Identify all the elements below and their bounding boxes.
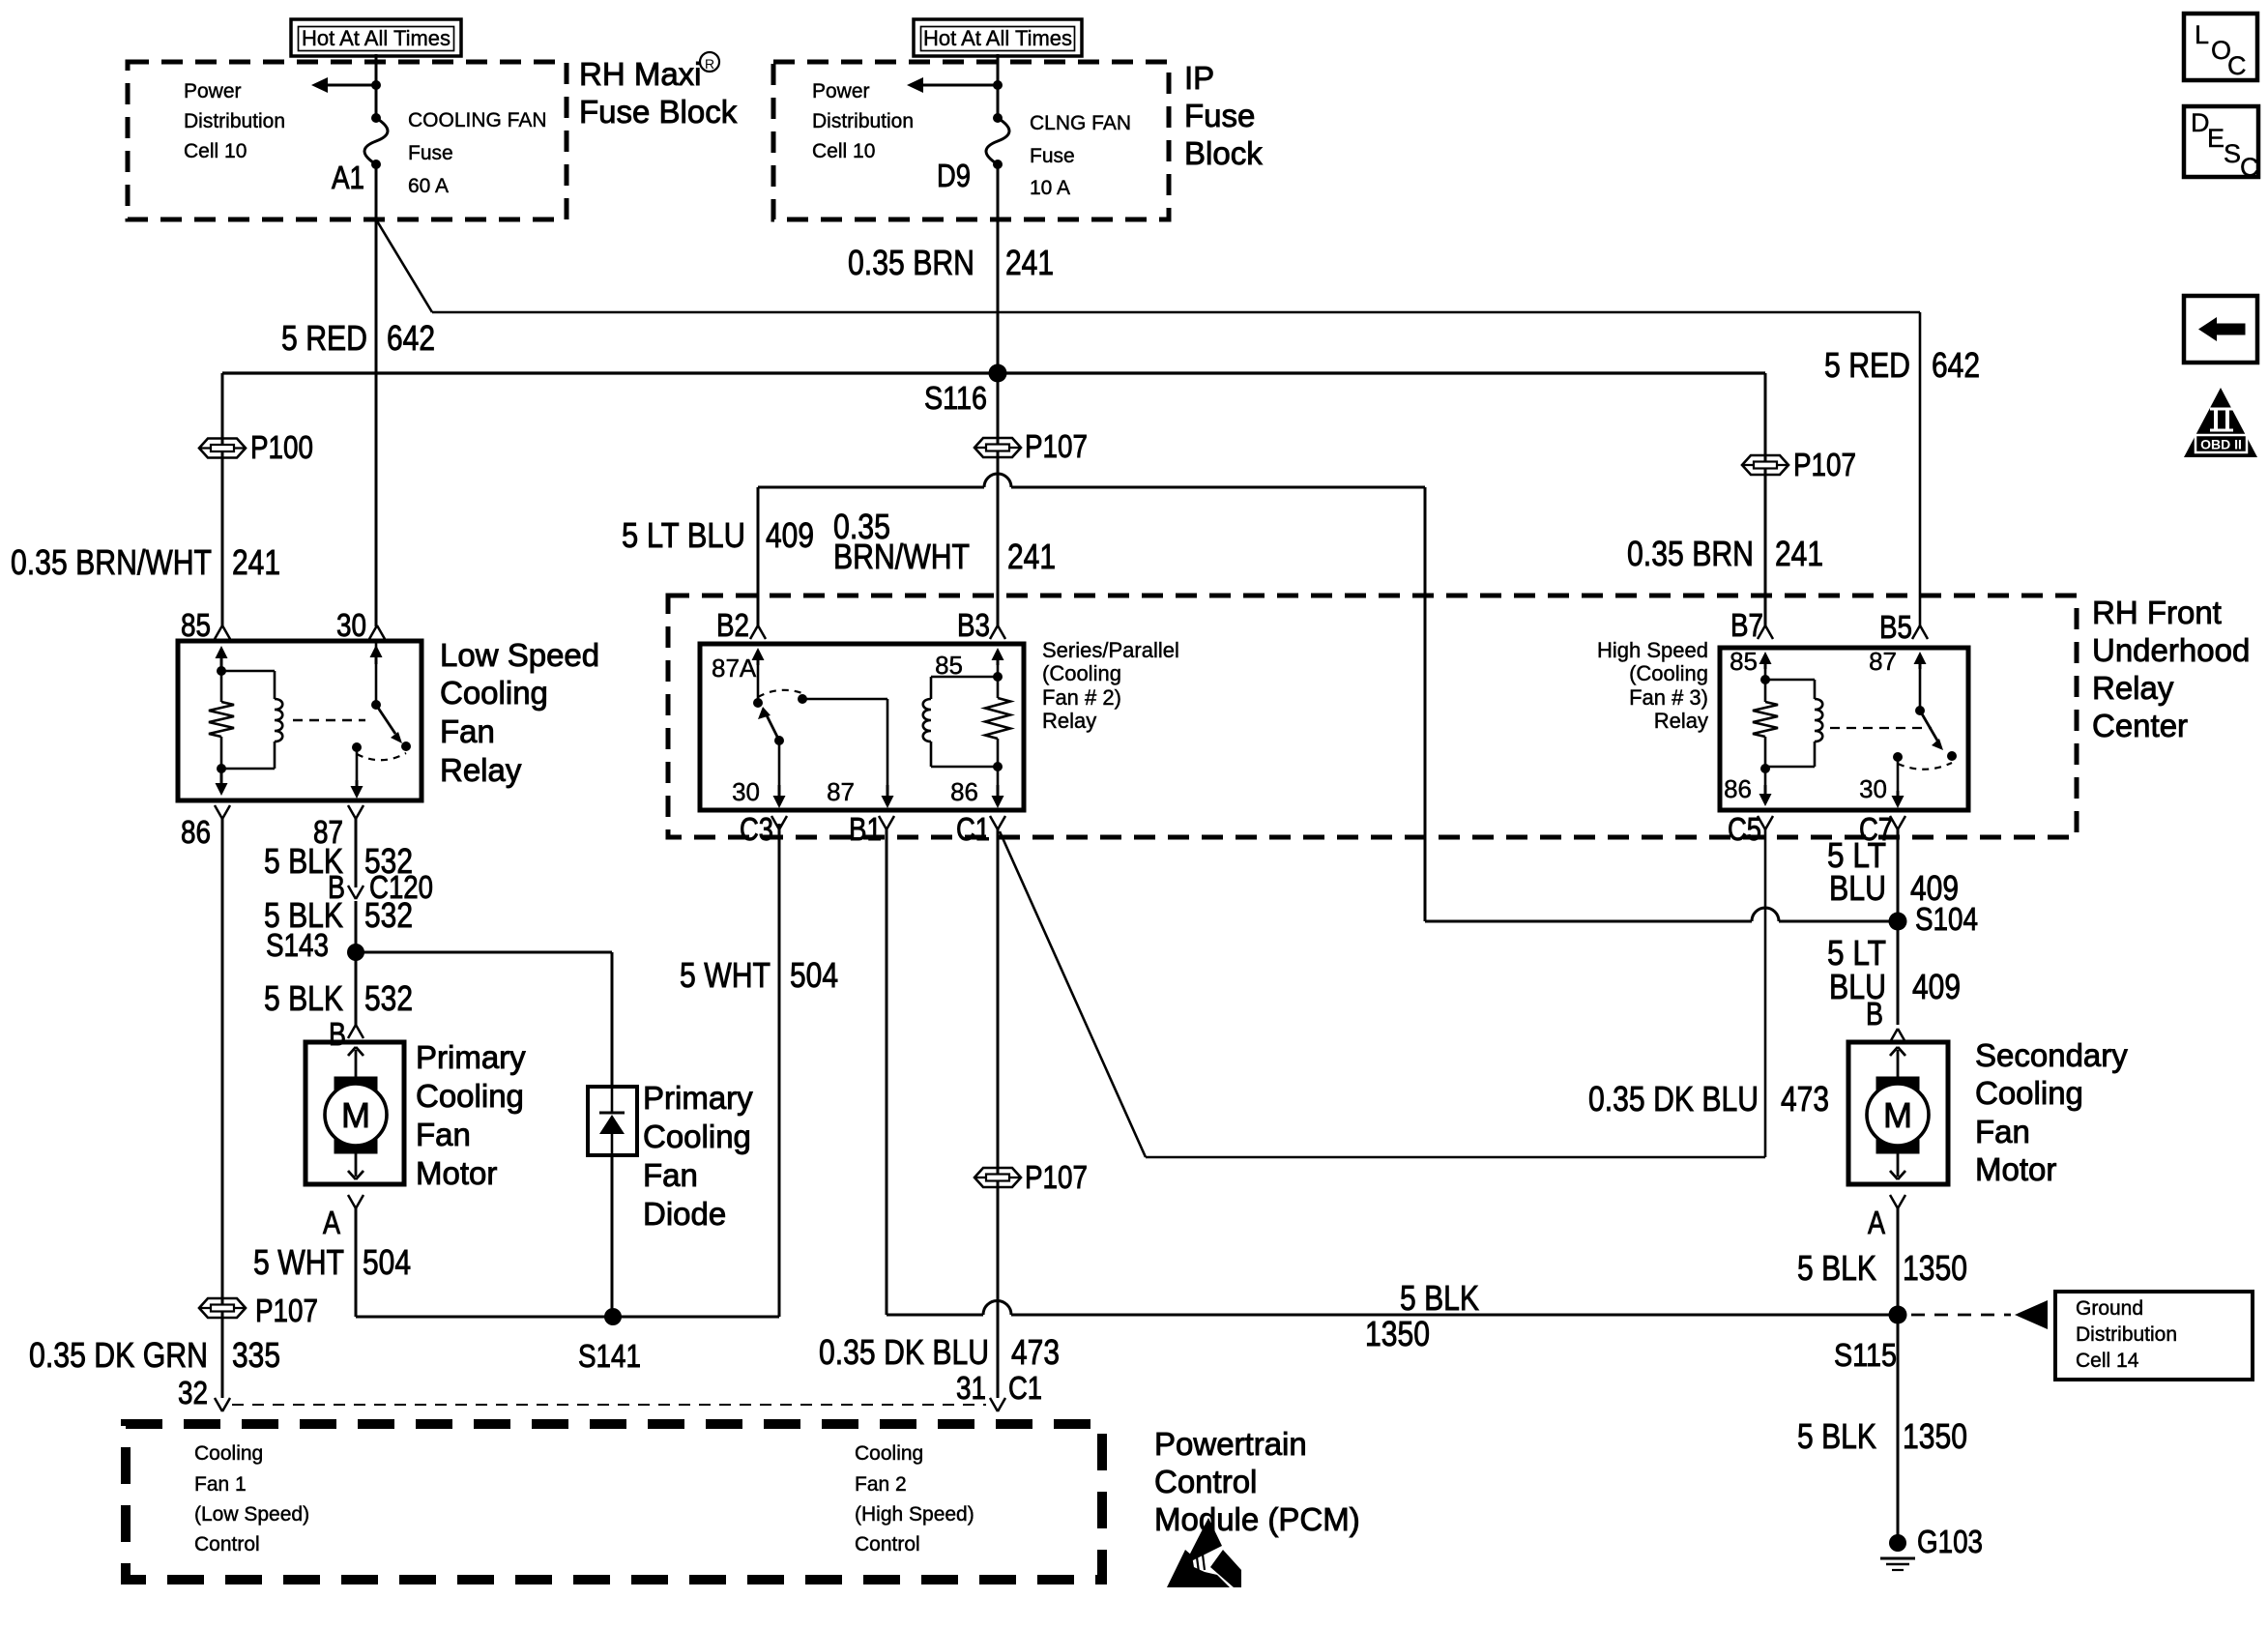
svg-text:0.35 BRN/WHT: 0.35 BRN/WHT [11, 542, 212, 582]
svg-text:30: 30 [732, 777, 760, 806]
label: 5 LT BLU | 409 [622, 515, 814, 555]
icon: back arrow box [2184, 296, 2257, 363]
power distribution arrow (fuse block 2) [907, 77, 1003, 93]
motor pin B (primary) [329, 1016, 363, 1052]
label: Power Distribution Cell 10 (cell ref, IP fuse block) [812, 80, 914, 162]
svg-text:0.35 DK BLU: 0.35 DK BLU [819, 1332, 989, 1372]
connector P107 (right) [1742, 447, 1856, 482]
svg-text:(Cooling: (Cooling [1042, 661, 1121, 685]
svg-text:Distribution: Distribution [812, 110, 914, 132]
svg-text:241: 241 [1007, 537, 1056, 576]
svg-text:5 WHT: 5 WHT [680, 955, 771, 995]
svg-text:642: 642 [387, 318, 435, 358]
label: 5 WHT | 504 (center) [680, 955, 838, 995]
svg-text:Low Speed: Low Speed [440, 637, 599, 673]
svg-text:L: L [2195, 20, 2209, 49]
label: 0.35 DK BLU | 473 (lower) [819, 1332, 1060, 1372]
svg-text:B5: B5 [1879, 609, 1912, 645]
svg-text:B: B [1866, 996, 1883, 1032]
svg-text:A: A [1868, 1205, 1885, 1240]
svg-text:Fan 2: Fan 2 [855, 1473, 907, 1496]
svg-text:85: 85 [181, 607, 211, 643]
wire 5 RED 642: fuse A1 down to relay pin 30 [375, 164, 378, 626]
wire 0.35 DK BLU 473: C1 diagonal to C5 [1000, 829, 1765, 1157]
connector C120 pin B [328, 869, 433, 905]
svg-text:5 BLK: 5 BLK [1797, 1416, 1876, 1456]
label: 5 LT BLU | 409 (above S104) [1827, 835, 1959, 908]
connector P107 (left) [199, 1293, 318, 1328]
svg-text:Power: Power [184, 80, 242, 102]
svg-text:CLNG FAN: CLNG FAN [1030, 112, 1131, 134]
label: 0.35 BRN | 241 (top) [848, 243, 1054, 282]
svg-text:Secondary: Secondary [1975, 1037, 2128, 1073]
ground distribution reference arrow [1911, 1300, 2048, 1329]
svg-text:C3: C3 [740, 811, 773, 847]
svg-text:Fan # 2): Fan # 2) [1042, 685, 1121, 710]
wire 0.35 DK BLU 473: C1 down to PCM pin 31 [997, 829, 1000, 1398]
svg-text:Powertrain: Powertrain [1154, 1426, 1307, 1462]
diode D1: Primary Cooling Fan Diode [588, 1087, 637, 1155]
svg-text:0.35 BRN: 0.35 BRN [1627, 534, 1754, 573]
label: 0.35 BRN | 241 (right) [1627, 534, 1823, 573]
svg-text:Fan: Fan [416, 1117, 471, 1152]
power distribution arrow (fuse block 1) [311, 77, 381, 93]
icon: OBD II triangle [2184, 388, 2257, 457]
svg-text:S116: S116 [924, 380, 987, 416]
pin A1 label [332, 160, 364, 195]
wire 5 RED 642: diagonal + top bus to right side down to B5 [376, 219, 1920, 626]
svg-text:87: 87 [827, 777, 855, 806]
svg-text:Fan: Fan [440, 713, 495, 749]
svg-text:RH Maxi: RH Maxi [579, 56, 702, 92]
fuse F2 CLNG FAN Fuse 10 A [986, 112, 1131, 199]
svg-text:Control: Control [1154, 1464, 1257, 1499]
label: Cooling Fan 2 (High Speed) Control [855, 1442, 974, 1555]
svg-text:31: 31 [956, 1370, 986, 1406]
svg-text:B2: B2 [716, 607, 749, 643]
RH Maxi Fuse Block dashed box [128, 62, 567, 219]
svg-text:Relay: Relay [1654, 709, 1708, 733]
svg-text:504: 504 [363, 1242, 411, 1282]
svg-text:Relay: Relay [1042, 709, 1096, 733]
svg-text:86: 86 [181, 814, 211, 850]
svg-text:RH Front: RH Front [2092, 595, 2222, 630]
motor pin B (secondary) [1866, 996, 1905, 1042]
label: 5 BLK | 1350 (lower right) [1797, 1416, 1967, 1456]
svg-text:241: 241 [1005, 243, 1054, 282]
icon: DESC box [2184, 106, 2259, 182]
power feed box 2: Hot At All Times [914, 19, 1082, 56]
wire 5 LT BLU 409: C7 down to S104 and motor B [1897, 829, 1900, 1025]
fuse F1 COOLING FAN Fuse 60 A [364, 109, 547, 197]
svg-text:5 BLK: 5 BLK [264, 978, 343, 1018]
svg-text:Fuse: Fuse [1184, 98, 1255, 133]
svg-text:0.35 BRN: 0.35 BRN [848, 243, 974, 282]
svg-text:86: 86 [950, 777, 978, 806]
label: Primary Cooling Fan Diode [643, 1080, 753, 1232]
svg-text:Power: Power [812, 80, 870, 102]
svg-text:S143: S143 [266, 927, 329, 963]
svg-text:S: S [2224, 139, 2241, 168]
svg-text:85: 85 [935, 651, 963, 680]
svg-text:Cooling: Cooling [855, 1442, 923, 1465]
svg-text:Cooling: Cooling [1975, 1075, 2083, 1111]
svg-text:473: 473 [1011, 1332, 1060, 1372]
svg-text:M: M [1883, 1095, 1912, 1135]
wire 0.35 BRN/WHT 241: bus to relay pin 85 (left column) [221, 373, 224, 626]
svg-text:Fuse Block: Fuse Block [579, 94, 738, 130]
svg-text:87A: 87A [712, 654, 757, 683]
label: Series/Parallel (Cooling Fan # 2) Relay [1042, 638, 1179, 733]
svg-text:S141: S141 [578, 1338, 641, 1374]
connector P100 [199, 429, 313, 465]
svg-text:B3: B3 [957, 607, 990, 643]
svg-text:30: 30 [336, 607, 366, 643]
svg-text:60 A: 60 A [408, 175, 449, 197]
wire 5 WHT 504: motor A down to junction line [355, 1208, 358, 1317]
svg-text:0.35 DK BLU: 0.35 DK BLU [1588, 1079, 1759, 1119]
wire: motor A / S141 / relay C3 junction line [356, 1316, 779, 1319]
label: 5 BLK | 532 (segment 1) [264, 841, 413, 881]
svg-text:(Low Speed): (Low Speed) [194, 1503, 309, 1526]
splice S115 [1834, 1306, 1907, 1374]
Ground Distribution Cell 14 box [2055, 1292, 2253, 1380]
svg-text:P107: P107 [1793, 447, 1856, 482]
label: High Speed (Cooling Fan # 3) Relay [1597, 638, 1708, 733]
svg-text:B: B [329, 1016, 346, 1052]
svg-text:C1: C1 [956, 811, 990, 847]
svg-text:532: 532 [364, 895, 413, 935]
svg-text:G103: G103 [1917, 1524, 1983, 1559]
label: 5 BLK | 532 (segment 2) [264, 895, 413, 935]
thin dashed PCM pin tie line [232, 1404, 986, 1406]
svg-text:(High Speed): (High Speed) [855, 1503, 974, 1526]
svg-text:30: 30 [1859, 774, 1887, 803]
svg-text:642: 642 [1932, 345, 1980, 385]
svg-text:Motor: Motor [1975, 1151, 2056, 1187]
label: 5 RED | 642 (left) [281, 318, 435, 358]
wire 0.35 BRN 241: fuse D9 down to S116 [997, 164, 1000, 373]
bus wire 0.35 BRN (S116 distribution, y=386) [222, 371, 1765, 374]
svg-text:473: 473 [1781, 1079, 1829, 1119]
splice S143 [266, 927, 364, 963]
ESD sensitivity symbol [1167, 1518, 1241, 1587]
svg-text:Fan # 3): Fan # 3) [1629, 685, 1708, 710]
svg-text:5 BLK: 5 BLK [1400, 1278, 1479, 1318]
wire 0.35 BRN 241: bus down to B7 [1764, 373, 1767, 626]
svg-text:Distribution: Distribution [184, 110, 285, 132]
Powertrain Control Module dashed box [126, 1424, 1102, 1580]
svg-text:E: E [2207, 124, 2224, 153]
svg-text:Cell 14: Cell 14 [2076, 1350, 2139, 1372]
svg-text:(Cooling: (Cooling [1629, 661, 1708, 685]
svg-text:32: 32 [178, 1375, 208, 1410]
svg-text:P107: P107 [1025, 1159, 1088, 1195]
wire: battery feed into fuse 1 [375, 54, 378, 118]
label: Power Distribution Cell 10 (cell ref, left fuse block) [184, 80, 285, 162]
wire: S143 branch to diode [356, 952, 612, 1087]
svg-text:IP: IP [1184, 60, 1214, 96]
svg-text:Block: Block [1184, 135, 1263, 171]
svg-text:M: M [341, 1095, 370, 1135]
PCM pin 32 [178, 1375, 230, 1411]
RH Front Underhood Relay Center dashed box [668, 596, 2077, 837]
svg-text:335: 335 [232, 1335, 280, 1375]
wire 5 LT BLU 409: B2 up/over/down to S104 [758, 474, 1898, 921]
svg-text:Control: Control [194, 1533, 260, 1555]
label: 5 BLK / 1350 (center) [1365, 1278, 1479, 1353]
label: RH Maxi(R) Fuse Block [579, 52, 738, 130]
svg-text:5 WHT: 5 WHT [253, 1242, 344, 1282]
svg-text:Distribution: Distribution [2076, 1323, 2177, 1346]
svg-text:Cell 10: Cell 10 [184, 140, 247, 162]
svg-text:BLU: BLU [1829, 868, 1886, 908]
svg-text:Primary: Primary [416, 1039, 526, 1075]
svg-text:Module (PCM): Module (PCM) [1154, 1501, 1360, 1537]
relay K1: Low Speed Cooling Fan Relay [178, 607, 422, 850]
svg-text:1350: 1350 [1903, 1416, 1967, 1456]
wire 0.35 DK GRN 335: relay 86 to PCM pin 32 [221, 819, 224, 1398]
svg-text:85: 85 [1730, 647, 1758, 676]
connector P107 (center) [974, 428, 1088, 464]
svg-text:C5: C5 [1728, 811, 1761, 847]
svg-text:Center: Center [2092, 708, 2188, 743]
svg-text:409: 409 [766, 515, 814, 555]
pin D9 label [937, 158, 971, 193]
svg-text:Cooling: Cooling [440, 675, 548, 711]
label: Low Speed Cooling Fan Relay [440, 637, 599, 788]
svg-text:241: 241 [1775, 534, 1823, 573]
label: Cooling Fan 1 (Low Speed) Control [194, 1442, 309, 1555]
PCM pin 31 / C1 [956, 1370, 1042, 1411]
svg-text:Underhood: Underhood [2092, 632, 2250, 668]
icon: LOC box [2184, 14, 2257, 80]
svg-text:1350: 1350 [1903, 1248, 1967, 1288]
svg-text:A1: A1 [332, 160, 364, 195]
svg-text:Fuse: Fuse [408, 142, 453, 164]
splice S104 [1889, 901, 1979, 937]
svg-text:S115: S115 [1834, 1337, 1897, 1373]
motor M2: Secondary Cooling Fan Motor [1848, 1042, 1948, 1184]
label: Primary Cooling Fan Motor [416, 1039, 526, 1191]
label: RH Front Underhood Relay Center [2092, 595, 2250, 743]
svg-text:87: 87 [1869, 647, 1897, 676]
svg-text:Relay: Relay [440, 752, 522, 788]
svg-text:A: A [323, 1205, 340, 1240]
svg-text:Ground: Ground [2076, 1297, 2143, 1320]
svg-text:Cell 10: Cell 10 [812, 140, 875, 162]
label: 5 LT BLU | 409 (below S104) [1827, 933, 1961, 1006]
svg-text:532: 532 [364, 978, 413, 1018]
svg-text:10 A: 10 A [1030, 177, 1070, 199]
svg-text:P100: P100 [250, 429, 313, 465]
svg-text:5 BLK: 5 BLK [1797, 1248, 1876, 1288]
svg-text:241: 241 [232, 542, 280, 582]
svg-text:5 LT BLU: 5 LT BLU [622, 515, 745, 555]
svg-text:High Speed: High Speed [1597, 638, 1708, 662]
svg-text:Fan 1: Fan 1 [194, 1473, 247, 1496]
label: 5 BLK | 1350 (upper right) [1797, 1248, 1967, 1288]
svg-text:C1: C1 [1008, 1370, 1042, 1406]
wire 5 BLK 532: S143 to motor pin B [355, 952, 358, 1025]
svg-text:0.35 DK GRN: 0.35 DK GRN [29, 1335, 208, 1375]
svg-text:Motor: Motor [416, 1155, 497, 1191]
svg-text:S104: S104 [1915, 901, 1978, 937]
wire 5 BLK 1350: S115 down to G103 [1897, 1315, 1900, 1543]
svg-text:5 RED: 5 RED [1824, 345, 1910, 385]
ground G103 [1880, 1524, 1983, 1570]
label: Powertrain Control Module (PCM) [1154, 1426, 1360, 1537]
svg-text:P107: P107 [255, 1293, 318, 1328]
svg-text:OBD II: OBD II [2200, 437, 2242, 452]
wire 5 BLK 532: C120 to S143 [355, 901, 358, 952]
wire 5 BLK 1350: B1 down and across to S115 [887, 829, 1898, 1315]
label: 0.35 BRN/WHT | 241 (left) [11, 542, 280, 582]
svg-text:BRN/WHT: BRN/WHT [833, 537, 970, 576]
svg-text:86: 86 [1724, 774, 1752, 803]
svg-text:409: 409 [1912, 967, 1961, 1006]
connector P107 (bottom) [974, 1159, 1088, 1195]
svg-text:R: R [705, 56, 714, 72]
motor M1: Primary Cooling Fan Motor [305, 1042, 404, 1184]
motor pin A (secondary) [1868, 1195, 1905, 1240]
svg-text:Hot At All Times: Hot At All Times [302, 26, 451, 50]
svg-text:Cooling: Cooling [643, 1119, 751, 1154]
svg-text:Diode: Diode [643, 1196, 726, 1232]
svg-text:P107: P107 [1025, 428, 1088, 464]
label: IP Fuse Block [1184, 60, 1263, 171]
svg-text:Cooling: Cooling [416, 1078, 524, 1114]
motor pin A (primary) [323, 1195, 363, 1240]
wire 5 WHT 504: junction up to relay pin C3 [778, 824, 781, 1317]
wire: diode to S141 [611, 1155, 614, 1317]
label: 5 RED | 642 (right) [1824, 345, 1980, 385]
power feed box 1: Hot At All Times [291, 19, 461, 56]
label: 0.35 DK BLU | 473 (upper) [1588, 1079, 1829, 1119]
svg-text:Primary: Primary [643, 1080, 753, 1116]
label: 5 BLK | 532 (segment 3) [264, 978, 413, 1018]
label: 5 WHT | 504 (left) [253, 1242, 411, 1282]
relay K2: Series/Parallel (Cooling Fan # 2) Relay [700, 607, 1024, 847]
wire 0.35 BRN/WHT 241: S116 to relay pin B3/85 [997, 373, 1000, 626]
svg-text:Fan: Fan [643, 1157, 698, 1193]
wire 5 BLK 1350: motor A down to S115 [1897, 1208, 1900, 1315]
label: 0.35 DK GRN | 335 [29, 1335, 280, 1375]
label: Secondary Cooling Fan Motor [1975, 1037, 2128, 1187]
svg-text:Fuse: Fuse [1030, 145, 1075, 167]
splice S141 [578, 1308, 641, 1374]
splice S116 [924, 364, 1007, 417]
svg-text:5 RED: 5 RED [281, 318, 367, 358]
svg-text:C: C [2240, 153, 2259, 182]
svg-text:Fan: Fan [1975, 1114, 2030, 1149]
svg-text:Series/Parallel: Series/Parallel [1042, 638, 1179, 662]
svg-text:Cooling: Cooling [194, 1442, 263, 1465]
svg-text:1350: 1350 [1365, 1314, 1430, 1353]
svg-text:C: C [2227, 51, 2247, 80]
svg-text:Control: Control [855, 1533, 920, 1555]
IP Fuse Block dashed box [773, 62, 1169, 219]
svg-text:B1: B1 [849, 811, 882, 847]
svg-text:504: 504 [790, 955, 838, 995]
svg-text:Relay: Relay [2092, 670, 2174, 706]
svg-text:COOLING FAN: COOLING FAN [408, 109, 547, 131]
relay K3: High Speed (Cooling Fan # 3) Relay [1720, 607, 1968, 847]
svg-text:Hot At All Times: Hot At All Times [923, 26, 1072, 50]
label: 0.35 BRN/WHT | 241 (center) [833, 507, 1056, 576]
wire: battery feed into fuse 2 [997, 54, 1000, 118]
wire 5 BLK 532: relay 87 to C120 [355, 819, 358, 887]
svg-text:D9: D9 [937, 158, 971, 193]
